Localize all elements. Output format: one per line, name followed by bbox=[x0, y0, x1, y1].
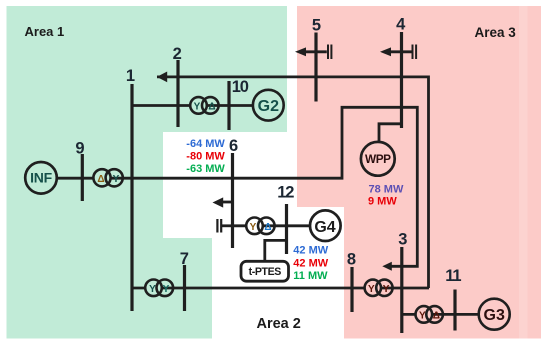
transformer bus1-bus7 bbox=[145, 280, 162, 297]
arrowhead at wire y77 left end bbox=[157, 72, 167, 83]
svg-text:G4: G4 bbox=[314, 219, 335, 236]
generator G4 bbox=[310, 210, 341, 241]
svg-text:5: 5 bbox=[312, 16, 321, 34]
transformer bus2-bus10 bbox=[190, 97, 207, 114]
svg-text:Y: Y bbox=[163, 284, 170, 295]
wire bus3 to G3 through transformer bbox=[402, 313, 479, 316]
bus 1 bbox=[130, 84, 133, 311]
svg-text:-80 MW: -80 MW bbox=[186, 150, 225, 162]
wire INF-bus9-bus1-bus6 long horizontal then around WPP to bus3 bbox=[58, 107, 418, 266]
Area 3 pink region bbox=[297, 6, 541, 339]
bus 10 bbox=[227, 81, 230, 130]
svg-text:G2: G2 bbox=[258, 98, 279, 115]
arrowhead load bus3 bbox=[382, 262, 392, 271]
wire bus1 to G2 through transformer bbox=[132, 104, 253, 107]
svg-text:INF: INF bbox=[30, 170, 52, 186]
svg-text:8: 8 bbox=[347, 251, 356, 269]
svg-text:t-PTES: t-PTES bbox=[249, 266, 282, 278]
svg-text:Δ: Δ bbox=[208, 101, 215, 112]
bus number labels bbox=[75, 16, 461, 285]
svg-text:42 MW: 42 MW bbox=[293, 244, 328, 256]
svg-text:Y: Y bbox=[419, 310, 426, 321]
wire top loop: arrow line y77 through bus2,5,4 then down to wire y287 bbox=[157, 77, 429, 288]
svg-text:7: 7 bbox=[180, 250, 189, 268]
svg-text:G3: G3 bbox=[484, 307, 505, 324]
bus 5 bbox=[314, 33, 317, 102]
svg-text:42 MW: 42 MW bbox=[293, 257, 328, 269]
bus 8 bbox=[350, 267, 353, 312]
arrowhead load bus5 bbox=[295, 47, 306, 56]
wire load arrow at bus6 bbox=[223, 201, 233, 204]
svg-text:Area 2: Area 2 bbox=[257, 316, 301, 332]
bus 12 bbox=[285, 204, 288, 254]
svg-text:Δ: Δ bbox=[97, 174, 104, 185]
svg-text:3: 3 bbox=[398, 231, 407, 249]
svg-text:9: 9 bbox=[75, 140, 84, 158]
generator G3 bbox=[479, 299, 510, 330]
bus 3 bbox=[400, 247, 403, 333]
svg-text:9 MW: 9 MW bbox=[368, 195, 397, 207]
capacitor bars at bus4 bbox=[413, 45, 417, 60]
wire bus6 to bus12 to G4 bbox=[233, 224, 310, 227]
svg-text:Y: Y bbox=[383, 284, 390, 295]
wire t-PTES to bus12 bbox=[265, 240, 287, 261]
bus 2 bbox=[176, 60, 179, 127]
svg-text:10: 10 bbox=[232, 78, 249, 96]
bus 7 bbox=[183, 265, 186, 311]
svg-text:-63 MW: -63 MW bbox=[186, 163, 225, 175]
Area 1 green region bbox=[7, 6, 288, 339]
wire bus4 load and shunt bbox=[391, 50, 412, 53]
wire bus1-bus7-bus8-bus3 bottom horizontal bbox=[132, 287, 429, 290]
svg-text:12: 12 bbox=[277, 184, 294, 202]
svg-text:-64 MW: -64 MW bbox=[186, 138, 225, 150]
generator WPP bbox=[361, 142, 395, 176]
svg-text:WPP: WPP bbox=[365, 152, 391, 166]
wire bus5 load and shunt bbox=[306, 50, 327, 53]
svg-text:Area 1: Area 1 bbox=[25, 24, 65, 39]
bus 11 bbox=[453, 290, 456, 331]
svg-text:1: 1 bbox=[126, 67, 135, 85]
transformer bus8-bus3 bbox=[365, 280, 381, 296]
capacitor bars at bus5 bbox=[328, 45, 331, 60]
svg-text:Area 3: Area 3 bbox=[475, 25, 517, 40]
transformer bus9-bus1 bbox=[93, 169, 110, 186]
svg-text:2: 2 bbox=[173, 45, 182, 63]
transformer bus6-bus12 bbox=[246, 218, 263, 235]
wire bus6 capacitor stub bbox=[222, 224, 233, 227]
arrowhead load bus4 bbox=[380, 47, 391, 56]
svg-text:Y: Y bbox=[250, 222, 257, 233]
svg-text:6: 6 bbox=[229, 137, 238, 155]
bus 4 bbox=[400, 32, 403, 128]
svg-text:11: 11 bbox=[445, 267, 461, 285]
bus 6 bbox=[231, 153, 234, 248]
svg-text:4: 4 bbox=[396, 16, 406, 34]
svg-text:11 MW: 11 MW bbox=[293, 270, 328, 282]
svg-text:Y: Y bbox=[368, 284, 375, 295]
svg-text:Y: Y bbox=[194, 101, 201, 112]
arrowhead load bus6 bbox=[213, 197, 224, 207]
svg-text:Y: Y bbox=[149, 284, 156, 295]
transformer bus3-bus11 bbox=[416, 306, 433, 323]
generator INF bbox=[25, 162, 57, 194]
svg-text:Y: Y bbox=[113, 174, 120, 185]
generator G2 bbox=[253, 90, 284, 121]
bus 9 bbox=[81, 154, 84, 201]
svg-text:78 MW: 78 MW bbox=[369, 183, 404, 195]
capacitor bars at bus6 bbox=[217, 219, 221, 233]
svg-text:Δ: Δ bbox=[264, 222, 271, 233]
t-PTES storage box bbox=[241, 261, 289, 281]
svg-text:Δ: Δ bbox=[433, 310, 440, 321]
wire bus4 to WPP bbox=[379, 124, 402, 142]
